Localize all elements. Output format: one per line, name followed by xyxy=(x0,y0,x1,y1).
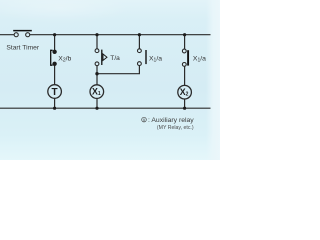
svg-text:: Auxiliary relay: : Auxiliary relay xyxy=(148,117,194,124)
svg-text:X2/b: X2/b xyxy=(58,55,71,63)
svg-text:T: T xyxy=(52,87,58,98)
svg-text:X1/a: X1/a xyxy=(149,56,162,64)
svg-text:T/a: T/a xyxy=(110,55,120,62)
svg-text:Start Timer: Start Timer xyxy=(6,44,39,51)
svg-text:X1/a: X1/a xyxy=(193,56,206,64)
svg-text:X: X xyxy=(143,117,146,122)
svg-text:(MY Relay, etc.): (MY Relay, etc.) xyxy=(157,125,194,131)
